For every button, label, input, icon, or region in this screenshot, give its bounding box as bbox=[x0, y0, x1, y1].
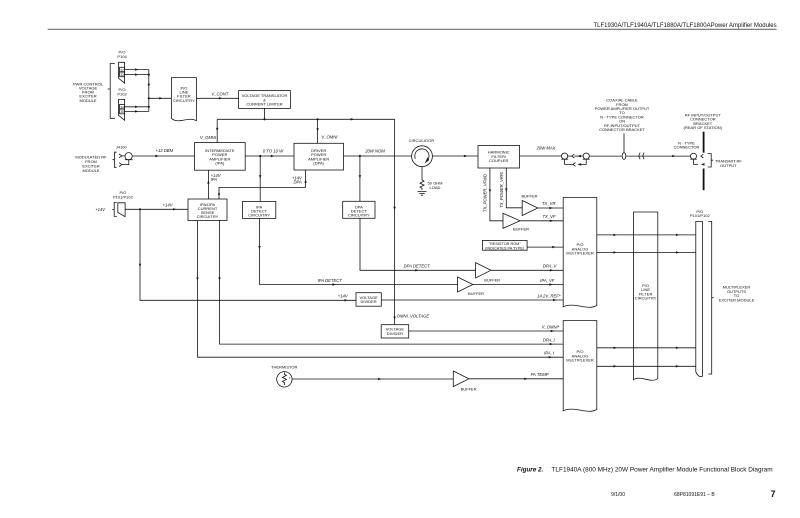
svg-text:35: 35 bbox=[120, 110, 124, 114]
svg-text:IPA_VF: IPA_VF bbox=[540, 278, 555, 283]
resistor 50 ohm bbox=[420, 180, 424, 190]
svg-text:(INDICATES PA TYPE): (INDICATES PA TYPE) bbox=[485, 246, 525, 250]
buffer U4 IPA_VF bbox=[458, 277, 473, 292]
svg-text:+13 DBM: +13 DBM bbox=[156, 148, 174, 153]
wire mux1 output A to line filter bbox=[597, 234, 696, 236]
wire IPA to DPA bbox=[245, 155, 294, 157]
cable length break symbol bbox=[639, 153, 644, 160]
wire IPA_I to multiplexer 2 bbox=[198, 221, 564, 358]
wire mux2 output A to line filter bbox=[597, 347, 696, 349]
svg-text:V_CONT: V_CONT bbox=[211, 91, 228, 96]
wire V_OMNI drop into DPA bbox=[317, 119, 319, 143]
footer date bbox=[611, 492, 625, 498]
wire +14V down and right to voltage divider 1 bbox=[140, 209, 356, 300]
svg-text:MODULE: MODULE bbox=[79, 98, 96, 103]
junction pin34/bus bbox=[148, 106, 150, 108]
svg-text:68P81091E91 – B: 68P81091E91 – B bbox=[674, 492, 715, 498]
connector P/O P104 label bbox=[117, 50, 127, 60]
wire circulator to harmonic filter bbox=[432, 155, 478, 157]
buffer U3 DPA_V bbox=[476, 263, 491, 278]
svg-text:MULTIPLEXER: MULTIPLEXER bbox=[566, 358, 594, 363]
N-type mating hook bbox=[694, 159, 699, 164]
label P/O P101/P102 (left) bbox=[113, 190, 134, 199]
svg-text:CIRCUITRY: CIRCUITRY bbox=[197, 214, 219, 219]
wire +14V IPA up into IPA bbox=[207, 170, 209, 199]
buffer U5 PA TEMP bbox=[453, 371, 469, 387]
figure caption bbox=[517, 466, 773, 473]
svg-text:LOAD: LOAD bbox=[430, 185, 441, 190]
wire pin33 to bus bbox=[125, 74, 149, 76]
mating arrows between jacks bbox=[568, 155, 583, 157]
svg-text:V_OMNI*: V_OMNI* bbox=[542, 324, 560, 329]
connector P/O P102 label bbox=[117, 87, 127, 97]
svg-text:THERMISTOR: THERMISTOR bbox=[271, 364, 297, 369]
svg-text:(REAR OF STATION): (REAR OF STATION) bbox=[684, 125, 723, 130]
wire V_CONT bbox=[196, 97, 238, 99]
pin 34 bbox=[120, 104, 125, 109]
svg-text:TX_POWER_VRFL: TX_POWER_VRFL bbox=[499, 171, 504, 208]
svg-text:7: 7 bbox=[770, 489, 775, 499]
wire +14V DPA up over and into DPA bbox=[219, 170, 306, 199]
bracket transmit RF output bbox=[708, 154, 713, 168]
box intermediate power amplifier IPA bbox=[195, 143, 246, 171]
svg-text:TLF1930A/TLF1940A/TLF1880A/TLF: TLF1930A/TLF1940A/TLF1880A/TLF1800APower… bbox=[594, 23, 777, 29]
J4100 coax jack bbox=[125, 153, 132, 160]
header rule bbox=[48, 28, 777, 30]
wire DPA_I to multiplexer 2 bbox=[220, 221, 564, 345]
wire pin32 to bus bbox=[125, 69, 149, 71]
pin 32 bbox=[120, 67, 125, 72]
pin 33 bbox=[120, 72, 125, 77]
RF connector bracket bar lower bbox=[703, 169, 705, 191]
pin 35 bbox=[120, 109, 125, 114]
svg-text:TX_POWER_VFWD: TX_POWER_VFWD bbox=[483, 174, 488, 212]
svg-text:DIVIDER: DIVIDER bbox=[360, 299, 376, 304]
wire modulated RF to IPA bbox=[132, 155, 194, 157]
box harmonic filter coupler bbox=[478, 145, 520, 168]
label MODULATED RF FROM EXCITER MODULE bbox=[75, 154, 107, 173]
label +14V supply bbox=[95, 207, 106, 212]
wire omni voltage long vertical to divider bbox=[394, 119, 396, 324]
wire PA TEMP to multiplexer 2 bbox=[469, 378, 563, 380]
connector J4100 label bbox=[116, 144, 128, 149]
label P/O P101/P102 (right) bbox=[690, 209, 711, 218]
svg-text:OUTPUT: OUTPUT bbox=[720, 163, 737, 168]
svg-text:OMNI_VOLTAGE: OMNI_VOLTAGE bbox=[397, 314, 430, 319]
svg-text:CONNECTOR: CONNECTOR bbox=[674, 145, 700, 150]
svg-text:+14V: +14V bbox=[95, 207, 106, 212]
box voltage translator and current limiter bbox=[239, 91, 291, 109]
label PWR CONTROL VOLTAGE FROM EXCITER MODULE bbox=[73, 81, 104, 102]
svg-text:DPA DETECT: DPA DETECT bbox=[404, 263, 430, 268]
wire drop to IPA detect circuitry bbox=[259, 156, 261, 201]
coax connector cable plug bbox=[583, 153, 589, 159]
label MULTIPLEXER OUTPUTS TO EXCITER MODULE bbox=[719, 285, 755, 303]
junction VT/bus bbox=[263, 118, 265, 120]
arrow on cable to N-type connector bbox=[672, 155, 676, 157]
svg-text:CIRCUITRY: CIRCUITRY bbox=[248, 212, 270, 217]
svg-text:IPA: IPA bbox=[211, 177, 218, 182]
svg-text:P101/P102: P101/P102 bbox=[690, 213, 711, 218]
svg-text:T: T bbox=[289, 376, 291, 380]
wire circulator to 50 ohm load bbox=[421, 167, 423, 180]
box resistor ROM bbox=[482, 241, 527, 251]
wire bus to line filter bbox=[149, 97, 172, 99]
wire IPA_VF to multiplexer bbox=[473, 284, 563, 286]
svg-text:P102: P102 bbox=[117, 92, 127, 97]
svg-text:DPA_I: DPA_I bbox=[543, 338, 556, 343]
box DPA detect circuitry bbox=[343, 201, 375, 218]
bracket for PWR CONTROL group bbox=[108, 64, 115, 119]
svg-text:CURRENT LIMITER: CURRENT LIMITER bbox=[246, 101, 282, 106]
svg-text:TX_VF: TX_VF bbox=[542, 214, 555, 219]
wire DPA_V to multiplexer bbox=[491, 269, 563, 271]
wire 14.2V_REF to multiplexer bbox=[381, 299, 563, 301]
footer document number bbox=[674, 492, 715, 498]
svg-text:BUFFER: BUFFER bbox=[468, 291, 484, 296]
wire pin34 to bus bbox=[125, 106, 149, 108]
junction bus/output bbox=[148, 97, 150, 99]
box voltage divider 2 bbox=[381, 325, 409, 338]
svg-text:14.2V_REF*: 14.2V_REF* bbox=[537, 293, 561, 298]
box P/O line filter circuitry (left) bbox=[171, 78, 196, 121]
circulator bbox=[409, 138, 435, 143]
cable marker oval bbox=[622, 153, 626, 160]
svg-text:CIRCUITRY: CIRCUITRY bbox=[348, 212, 370, 217]
svg-text:BUFFER: BUFFER bbox=[513, 226, 529, 231]
wire pin35 to bus bbox=[125, 110, 149, 112]
connector P101/P102 strip (right) bbox=[696, 221, 703, 376]
svg-text:TLF1940A (800 MHz) 20W Power: TLF1940A (800 MHz) 20W Power Amplifier M… bbox=[552, 466, 773, 473]
svg-text:COUPLER: COUPLER bbox=[489, 158, 508, 163]
bracket J4100 bbox=[112, 152, 116, 167]
box IPA/DPA current sense circuitry bbox=[188, 199, 227, 221]
svg-text:CIRCUITRY: CIRCUITRY bbox=[173, 98, 195, 103]
connector P104 body bbox=[119, 62, 125, 83]
coupler sample wire TX_POWER_VRFL bbox=[506, 168, 522, 208]
box P/O analog multiplexer 1 bbox=[563, 198, 597, 308]
svg-text:P104: P104 bbox=[117, 54, 127, 59]
svg-text:+14V: +14V bbox=[163, 202, 174, 207]
N-type connector jack bbox=[691, 153, 697, 159]
wire V_OMNI* to multiplexer 2 bbox=[409, 330, 564, 332]
box voltage divider 1 bbox=[356, 293, 381, 307]
wire TX_VF to multiplexer bbox=[520, 220, 563, 222]
wire drop to DPA detect circuitry bbox=[359, 156, 361, 201]
svg-text:BUFFER: BUFFER bbox=[484, 278, 500, 283]
svg-text:33: 33 bbox=[120, 73, 124, 77]
svg-text:TX_VR: TX_VR bbox=[542, 201, 556, 206]
svg-text:9/1/00: 9/1/00 bbox=[611, 492, 625, 498]
wire mux1 output B to line filter bbox=[597, 251, 696, 253]
label 50 OHM LOAD bbox=[428, 181, 443, 190]
bus joining P104/P102 pins bbox=[148, 70, 150, 112]
label RF INPUT/OUTPUT CONNECTOR BRACKET (REAR OF STATION) bbox=[684, 112, 723, 130]
RF connector bracket bar upper bbox=[703, 132, 705, 153]
mating hook below jacks bbox=[565, 159, 587, 164]
footer page number bbox=[770, 489, 775, 499]
svg-text:+14V: +14V bbox=[338, 294, 349, 299]
label OMNI_VOLTAGE bbox=[397, 314, 430, 319]
label N-TYPE CONNECTOR bbox=[674, 140, 700, 149]
buffer U2 TX_VF bbox=[503, 213, 520, 228]
junction 20W NOM / DPA detect drop bbox=[359, 155, 361, 157]
connector P102 body bbox=[119, 99, 125, 120]
svg-text:PA TEMP: PA TEMP bbox=[531, 372, 549, 377]
bracket P101/P102 bbox=[112, 203, 117, 217]
svg-text:20W NOM: 20W NOM bbox=[364, 148, 385, 153]
box IPA detect circuitry bbox=[243, 201, 276, 218]
wire TX_VR to multiplexer bbox=[538, 207, 563, 209]
svg-text:20W MAX: 20W MAX bbox=[536, 145, 556, 150]
svg-text:DPA: DPA bbox=[293, 180, 302, 185]
box P/O line filter circuitry (right) bbox=[634, 212, 658, 380]
wire resistor ROM to multiplexer bbox=[527, 246, 563, 248]
wire +14V to current sense bbox=[125, 208, 188, 210]
connector P101/P102 body (left) bbox=[118, 203, 125, 217]
wire coupler to output connector bbox=[520, 155, 562, 157]
svg-text:Figure 2.: Figure 2. bbox=[517, 466, 543, 473]
J4100 pin upper bbox=[119, 154, 125, 158]
wire thermistor to buffer bbox=[292, 378, 453, 380]
wire DPA detect output to buffer bbox=[360, 218, 476, 270]
svg-text:IPA_I: IPA_I bbox=[544, 351, 555, 356]
wire IPA detect output to buffer bbox=[260, 218, 458, 284]
bracket multiplexer outputs bbox=[708, 221, 713, 374]
svg-text:J4100: J4100 bbox=[116, 144, 128, 149]
wire mux2 output B to line filter bbox=[597, 365, 696, 367]
svg-text:(DPA): (DPA) bbox=[313, 160, 324, 165]
ground bbox=[418, 192, 427, 196]
coaxial cable wire bbox=[589, 155, 690, 157]
coax connector PA output jack bbox=[562, 153, 568, 159]
header title text bbox=[594, 23, 777, 29]
svg-text:0 TO 10 W: 0 TO 10 W bbox=[263, 148, 284, 153]
svg-text:EXCITER MODULE: EXCITER MODULE bbox=[719, 297, 755, 302]
buffer U1 TX_VR bbox=[522, 201, 538, 216]
svg-text:V_OMNI: V_OMNI bbox=[200, 135, 217, 140]
svg-text:IPA DETECT: IPA DETECT bbox=[318, 278, 343, 283]
svg-text:CIRCUITRY: CIRCUITRY bbox=[635, 296, 657, 301]
thermistor RT1 bbox=[271, 364, 297, 369]
box driver power amplifier DPA bbox=[294, 143, 344, 170]
svg-text:(IPA): (IPA) bbox=[215, 160, 224, 165]
J4100 pin lower with hook bbox=[119, 160, 129, 167]
svg-text:MODULE: MODULE bbox=[82, 168, 99, 173]
junction DPA drop/bus bbox=[317, 118, 319, 120]
box P/O analog multiplexer 2 bbox=[563, 321, 597, 412]
coupler sample wire TX_POWER_VFWD bbox=[490, 168, 503, 221]
svg-text:CONNECTOR BRACKET: CONNECTOR BRACKET bbox=[599, 127, 645, 132]
label COAXIAL CABLE ... leader bbox=[623, 133, 625, 152]
svg-text:BUFFER: BUFFER bbox=[461, 387, 477, 392]
V_OMNI bus bbox=[217, 118, 394, 120]
wire DPA to circulator bbox=[344, 155, 412, 157]
svg-text:DPA_V: DPA_V bbox=[543, 264, 558, 269]
svg-text:CIRCULATOR: CIRCULATOR bbox=[409, 138, 435, 143]
junction +14V branch bbox=[139, 208, 141, 210]
svg-text:BUFFER: BUFFER bbox=[522, 194, 538, 199]
wire V_OMNI drop into IPA bbox=[216, 119, 218, 142]
svg-text:MULTIPLEXER: MULTIPLEXER bbox=[566, 251, 594, 256]
svg-text:P101/P102: P101/P102 bbox=[113, 195, 134, 200]
svg-text:V_OMNI: V_OMNI bbox=[321, 135, 338, 140]
junction 0to10W / IPA detect drop bbox=[259, 155, 261, 157]
wire from voltage translator down to V_OMNI bus bbox=[264, 108, 266, 119]
junction pin33/bus bbox=[148, 74, 150, 76]
svg-text:DIVIDER: DIVIDER bbox=[387, 331, 403, 336]
